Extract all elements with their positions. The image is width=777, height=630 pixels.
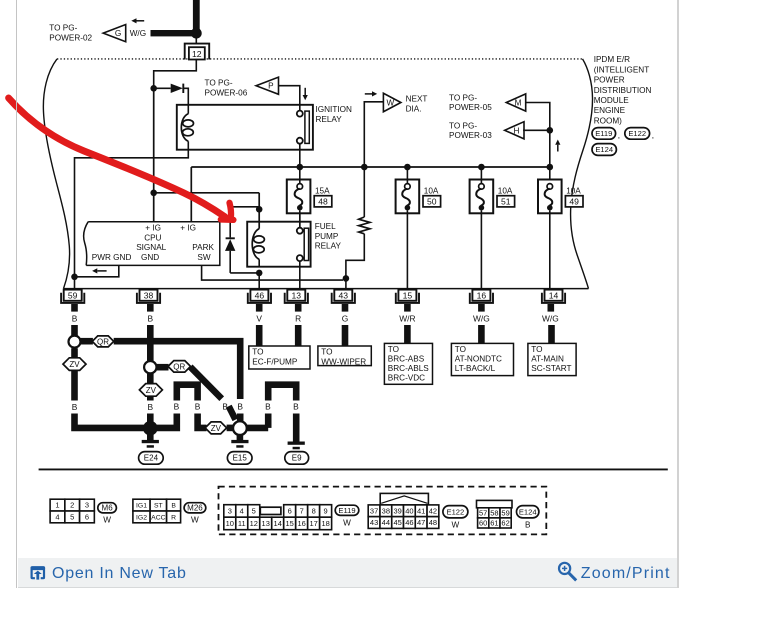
connector pin 14 [542, 293, 565, 303]
arrow left above W/G wire [137, 20, 145, 22]
connector 12 bracket [185, 44, 210, 60]
ignition relay U1 box [177, 105, 313, 150]
wire bus to fuse 50 [406, 167, 408, 184]
splice QR link row [92, 336, 114, 347]
ignition relay coil [181, 114, 188, 142]
wire ignition coil to PWR GND node [75, 150, 189, 275]
wire thick 59 to ground row [75, 414, 149, 428]
wire from battery node to connector 12 [195, 36, 197, 45]
wire bus to resistor [363, 167, 365, 217]
junction dot ground E24 node [143, 421, 158, 436]
wire fuse 50 to pin 15 [406, 211, 408, 290]
connector triangle H to PG-POWER-03 [505, 122, 524, 139]
fuse F49 10A [538, 180, 562, 214]
wire thick 38 circle to ZV [147, 373, 154, 384]
wire fuel pump relay output to pin 13 [299, 261, 301, 289]
wire fuse 49 to pin 14 [549, 211, 551, 290]
connector pin 46 [248, 293, 271, 303]
connector oval E124 [592, 144, 616, 156]
red annotation arrowhead [230, 203, 232, 218]
ground oval E15 [227, 452, 252, 465]
box TO AT-MAIN [528, 343, 576, 375]
wire diode anode [154, 87, 171, 89]
fuse F51 10A [470, 180, 494, 214]
wire thick E15 circle right [247, 425, 268, 432]
wire fuel pump coil bottom [258, 259, 260, 266]
connector oval E124 bottom [517, 506, 539, 518]
junction dot bus at fuse 48 [297, 164, 304, 171]
ignition relay contact circle top [297, 111, 303, 117]
wire from M triangle [526, 103, 550, 129]
wire from connector 12 into IPDM [154, 60, 197, 87]
ground symbol E24 [142, 440, 159, 443]
splice ZV on wire 38 [139, 384, 162, 397]
icon open in new tab [31, 566, 46, 579]
ground symbol E15 [231, 440, 248, 443]
connector triangle G to PG-POWER-02 [103, 25, 126, 42]
box TO BRC-ABS [384, 343, 432, 384]
fuel pump relay contact circle top [297, 228, 303, 234]
wire fuse 48 to fuel pump relay contact [299, 211, 301, 228]
wire thick 38 below ZV [147, 396, 154, 400]
wire stub ground E24 [147, 433, 154, 440]
junction dot diode node [150, 85, 157, 92]
svg-text:Zoom/Print: Zoom/Print [581, 565, 671, 582]
IPDM box bottom edge [64, 288, 589, 290]
arrow up beside fuse 49 feed [557, 145, 559, 152]
connector grid M26 [133, 499, 150, 511]
connector grid M6 [50, 499, 65, 511]
wire IG link to fuel pump coil [258, 193, 260, 229]
splice ZV on wire 59 [63, 358, 86, 371]
wire from H triangle [523, 129, 550, 131]
junction dot bus at resistor [361, 164, 368, 171]
wire bus +IG feed [191, 166, 550, 168]
wire diode cathode to relay coil [183, 88, 188, 113]
separator line [39, 468, 668, 470]
connector oval E119 [592, 128, 616, 140]
wire diode link [230, 206, 259, 208]
fuel pump relay coil [252, 229, 259, 260]
connector pin 43 [332, 293, 355, 303]
wire fuel pump coil to pin 46 [258, 273, 260, 290]
connector triangle W to next diagram [383, 93, 401, 112]
wire thick QR diagonal lower [229, 406, 236, 420]
wire thick 14 to AT-MAIN [548, 325, 555, 343]
wire thick link row QR [81, 338, 93, 345]
junction dot bus at fuse 51 [478, 164, 485, 171]
box TO WW-WIPER [318, 346, 371, 366]
fuel pump relay contact circle bottom [297, 255, 303, 261]
connector grid E119 [224, 505, 236, 518]
wire PARK SW pin to park node [202, 265, 343, 280]
fuse F48 15A [287, 180, 311, 214]
connector 12 box [189, 47, 205, 59]
wire thick bridge2 top [268, 385, 296, 401]
wire thick 43 to WW-WIPER [342, 325, 349, 346]
connector oval E119 bottom [335, 505, 359, 515]
splice ZV before ground E15 [205, 422, 227, 434]
fuel pump relay contact bar [304, 228, 308, 260]
wire thick to G connector [151, 30, 197, 36]
wire thick 16 to AT-NONDTC [478, 325, 485, 343]
fuel pump relay U2 box [247, 222, 310, 267]
connector pin 13 [285, 293, 308, 303]
wire thick 15 to BRC [404, 325, 411, 343]
arrow down into ignition relay [304, 88, 306, 95]
connector pin 16 [470, 293, 493, 303]
wire thick 46 to EC-F/PUMP [256, 325, 263, 346]
arrow right above W [365, 93, 372, 95]
connector oval E122 bottom [443, 506, 468, 518]
wire stub ground E15 [237, 435, 244, 441]
wire thick 13 to EC-F/PUMP [295, 325, 302, 346]
junction dot fuel pump coil ground [256, 270, 263, 277]
wire thick battery feed from top [193, 0, 200, 33]
wire from P triangle to ignition relay contact [279, 86, 300, 111]
junction dot park node [343, 275, 350, 282]
junction dot PWR GND node [71, 274, 78, 281]
connector pin 15 [396, 293, 419, 303]
wire thick 59 circle to ZV [71, 348, 78, 358]
wire PWR GND node to pin 59 [74, 277, 76, 290]
wire PWR GND pin of CPU [77, 265, 119, 276]
wire park node to pin 43 [345, 278, 347, 289]
wire diode anode to coil bottom [230, 272, 259, 274]
wire thick bridge2 to ground E9 [293, 414, 300, 442]
junction dot M-H node [547, 127, 554, 134]
connector oval M6 [98, 503, 117, 513]
connector oval E122 [625, 128, 650, 140]
ground symbol E9 [288, 442, 305, 445]
wire thick circle 38 to QR [157, 364, 169, 371]
wire fuel pump contact up [299, 213, 301, 228]
wire bus to fuse 51 [480, 167, 482, 184]
ground oval E9 [285, 452, 309, 465]
ignition relay contact circle bottom [297, 138, 303, 144]
connector grid E124 [477, 500, 513, 507]
wire ignition coil bottom [187, 141, 189, 149]
junction dot bus at fuse 49 [547, 164, 554, 171]
wire thick 38 to ground dot [147, 414, 154, 423]
ground junction circle E15 [233, 421, 247, 435]
fuse F50 10A [396, 180, 420, 214]
wire thick E15 column lower [237, 414, 244, 422]
connector oval M26 [184, 503, 206, 513]
wire thick 38 down [147, 325, 154, 361]
connector triangle M to PG-POWER-05 [506, 94, 525, 111]
wire thick ground row bridge1 [153, 414, 177, 428]
wire IG link horizontal [154, 192, 260, 194]
connector pin 38 [137, 293, 160, 303]
junction dot fuel pump coil feed [256, 206, 263, 213]
wire bus to fuse 48 [299, 167, 301, 184]
resistor R1 [359, 217, 370, 234]
connector circle on wire 38 [144, 361, 156, 373]
connector triangle P to PG-POWER-06 [256, 77, 279, 94]
CPU module box [86, 222, 220, 266]
wire thick 59 down to splice circle [71, 325, 78, 337]
connector grid E122 [380, 493, 428, 505]
arrow left PWR GND flow [97, 270, 106, 272]
wire bus down-link to IG line [190, 167, 192, 222]
diode D1 ignition relay feed [171, 84, 183, 93]
wire M-H node to bus [549, 130, 551, 180]
IPDM box dashed top edge [57, 58, 583, 60]
splice QR on wire 38 [168, 361, 191, 373]
junction dot bus at fuse 50 [404, 164, 411, 171]
park switch diode D2 [229, 207, 231, 238]
wire resistor to park node [346, 234, 364, 276]
IPDM box right wavy border [571, 59, 593, 289]
wire thick link row to E15 column [114, 341, 241, 399]
wire thick bridge1 to ZV [198, 414, 207, 428]
IPDM box left wavy border [43, 59, 69, 289]
wire branch to W connector [364, 102, 383, 167]
junction dot IG link [150, 190, 157, 197]
wire thick bridge2 [265, 414, 272, 428]
wire thick QR diagonal upper [190, 367, 222, 399]
ignition relay contact bar [305, 111, 309, 143]
junction dot battery node [191, 28, 202, 39]
wire fuse 51 to pin 16 [480, 211, 482, 290]
box TO EC-F/PUMP [249, 346, 310, 369]
ground oval E24 [139, 452, 164, 465]
wire ignition relay output to bus [299, 144, 301, 167]
connector pin 59 [61, 293, 84, 303]
svg-text:Open In New Tab: Open In New Tab [52, 565, 187, 582]
wire thick 59 below ZV [71, 370, 78, 400]
dashed box IPDM connectors [219, 487, 547, 535]
icon magnifier zoom [559, 563, 570, 574]
wire thick bridge1 top [177, 385, 198, 401]
wire +IG pin 1 of CPU [153, 88, 155, 221]
connector circle on wire 59 [69, 336, 81, 348]
wire thick ZV to E15 circle [227, 425, 234, 432]
box TO AT-NONDTC [451, 343, 513, 375]
red annotation curve [9, 98, 225, 217]
